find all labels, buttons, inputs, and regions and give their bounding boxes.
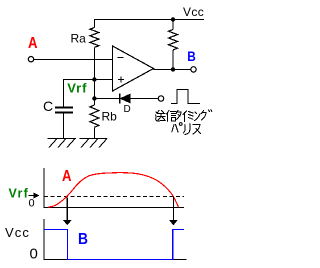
svg-text:Ra: Ra xyxy=(71,32,87,46)
katakana ku + dakuten xyxy=(202,111,207,121)
katakana i xyxy=(183,111,187,122)
pulse waveform glyph xyxy=(171,90,200,104)
svg-text:A: A xyxy=(28,35,38,52)
svg-text:Vcc: Vcc xyxy=(5,225,30,240)
junction dot Vrf node at non-inverting wire xyxy=(92,77,96,81)
resistor Rb xyxy=(90,99,99,139)
threshold dashed line xyxy=(44,196,184,198)
svg-text:A: A xyxy=(62,168,72,185)
terminal pulse input xyxy=(158,96,163,101)
wire top rail Vcc xyxy=(94,19,204,21)
ground under Rb xyxy=(80,139,108,148)
wire Vrf node to diode wire xyxy=(93,80,95,99)
wire op-amp output to node B xyxy=(154,69,191,71)
svg-text:Vrf: Vrf xyxy=(67,81,87,96)
junction dot top rail xyxy=(171,17,175,21)
katakana su xyxy=(193,125,201,135)
svg-text:B: B xyxy=(78,231,88,248)
waveform B (output pulses) xyxy=(44,230,184,260)
curve A (Vrf voltage) xyxy=(48,173,179,208)
timing arrow 2 xyxy=(169,197,178,226)
svg-text:Vrf: Vrf xyxy=(9,186,30,200)
op-amp U1 xyxy=(113,46,154,91)
resistor pull-up (Vcc to output) xyxy=(169,20,178,70)
waveform axis B plot xyxy=(44,219,187,260)
katakana n xyxy=(195,112,201,121)
katakana ta xyxy=(176,111,181,120)
svg-text:0: 0 xyxy=(29,198,35,210)
svg-text:D: D xyxy=(124,104,131,115)
waveform Vrf arrow xyxy=(29,193,40,199)
wire Vrf node to diode D xyxy=(94,98,119,100)
timing arrow 1 xyxy=(63,198,72,226)
node B terminal xyxy=(191,67,196,72)
diode D xyxy=(120,94,159,104)
ground under C xyxy=(48,139,77,148)
katakana mi xyxy=(189,112,194,120)
kanji 信 xyxy=(167,111,170,122)
svg-text:Vcc: Vcc xyxy=(183,5,204,19)
wire node A to op-amp inverting input xyxy=(34,59,113,61)
node A terminal xyxy=(28,57,33,62)
svg-text:0: 0 xyxy=(30,246,38,263)
text パルス (pulse) hand-drawn xyxy=(172,123,201,135)
svg-text:Rb: Rb xyxy=(102,110,118,124)
waveform axis Vrf plot xyxy=(44,168,184,208)
junction dot diode branch xyxy=(92,96,96,100)
katakana ru xyxy=(184,124,190,135)
junction dot output xyxy=(171,67,175,71)
wire C top to op-amp non-inverting input xyxy=(64,80,113,108)
kanji 送 xyxy=(157,111,165,121)
text 送信タイミング (transmission timing) hand-drawn xyxy=(156,110,212,122)
capacitor C xyxy=(55,108,73,139)
resistor Ra xyxy=(90,20,99,80)
svg-text:C: C xyxy=(43,98,53,114)
katakana ha + handakuten xyxy=(172,125,178,133)
svg-text:B: B xyxy=(187,49,196,64)
